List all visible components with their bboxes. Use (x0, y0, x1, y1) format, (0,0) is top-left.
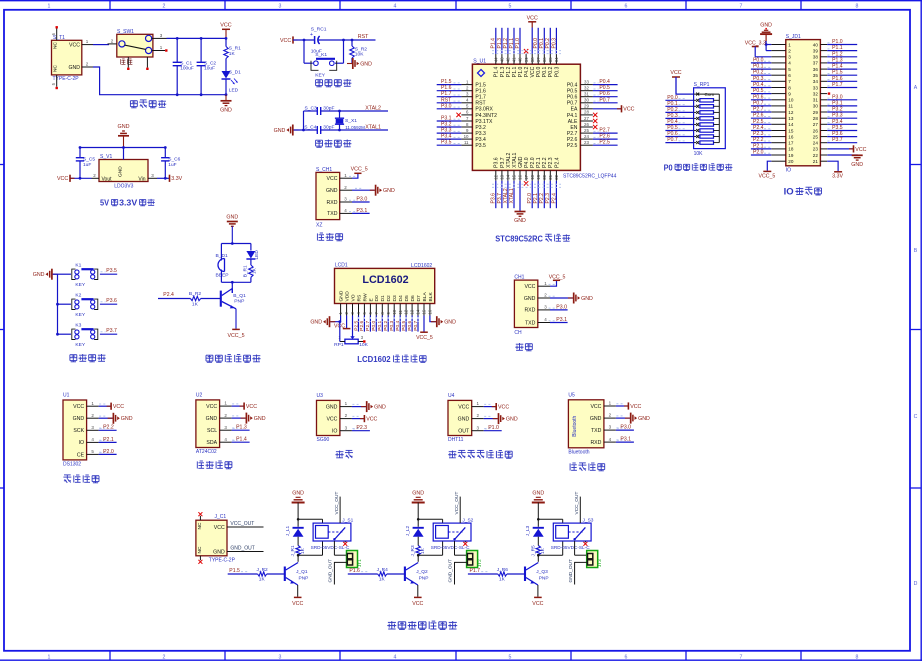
svg-text:40: 40 (518, 57, 523, 62)
svg-text:STC89C52RC_LQFP44: STC89C52RC_LQFP44 (563, 174, 617, 180)
svg-text:P4.3INT2: P4.3INT2 (475, 113, 497, 119)
svg-text:J_R1: J_R1 (290, 545, 296, 557)
svg-text:IO: IO (784, 187, 794, 197)
svg-text:VCC: VCC (630, 404, 641, 410)
svg-text:33: 33 (584, 79, 589, 84)
svg-text:VCC: VCC (280, 38, 291, 44)
svg-text:VCC: VCC (670, 70, 681, 76)
svg-text:K1: K1 (75, 263, 81, 269)
svg-text:P1.4: P1.4 (832, 64, 843, 70)
svg-text:Vout: Vout (102, 176, 113, 182)
svg-text:25: 25 (813, 134, 819, 139)
svg-text:JT2: JT2 (477, 559, 482, 567)
svg-text:S_D1: S_D1 (229, 70, 241, 76)
svg-text:GND: GND (33, 272, 45, 278)
svg-text:P3.0: P3.0 (356, 196, 367, 202)
svg-text:RS: RS (356, 294, 362, 302)
svg-text:P1.3: P1.3 (236, 425, 247, 431)
svg-text:10: 10 (464, 134, 469, 139)
svg-text:4: 4 (788, 61, 791, 66)
svg-text:39: 39 (813, 48, 819, 53)
svg-text:NC: NC (53, 42, 59, 49)
svg-text:10: 10 (392, 309, 397, 314)
svg-text:P3.0: P3.0 (832, 94, 843, 100)
svg-text:VCC_OUT: VCC_OUT (454, 492, 460, 515)
svg-text:37: 37 (813, 61, 819, 66)
svg-text:30: 30 (584, 98, 589, 103)
svg-text:D6: D6 (410, 295, 416, 302)
svg-text:2: 2 (163, 654, 166, 660)
svg-text:RXD: RXD (590, 440, 601, 446)
svg-text:P0.3: P0.3 (667, 113, 678, 119)
svg-text:KEY: KEY (75, 282, 86, 288)
svg-text:6: 6 (788, 73, 791, 78)
svg-text:S_RP1: S_RP1 (694, 82, 710, 88)
svg-text:P1.7: P1.7 (441, 91, 452, 97)
svg-text:P3.4: P3.4 (475, 137, 486, 143)
svg-text:LCD1602: LCD1602 (411, 263, 432, 269)
svg-text:1K: 1K (499, 577, 506, 583)
svg-text:VCC: VCC (366, 417, 377, 423)
svg-text:P1.1: P1.1 (832, 45, 843, 51)
svg-text:16: 16 (788, 134, 794, 139)
svg-text:P2.5: P2.5 (753, 119, 764, 125)
svg-text:GND: GND (326, 188, 338, 194)
svg-text:P1.7: P1.7 (475, 95, 486, 101)
svg-text:KEY: KEY (315, 73, 326, 79)
svg-text:P1.2: P1.2 (503, 38, 509, 49)
svg-text:U4: U4 (448, 393, 455, 399)
svg-text:J_Q3: J_Q3 (536, 569, 548, 575)
svg-text:P1.6: P1.6 (832, 76, 843, 82)
svg-text:VCC: VCC (113, 404, 124, 410)
svg-text:J_S3: J_S3 (583, 518, 594, 524)
svg-text:29: 29 (813, 110, 819, 115)
svg-text:P4.2: P4.2 (524, 67, 530, 78)
svg-text:S_U1: S_U1 (473, 59, 486, 65)
svg-text:13: 13 (500, 174, 505, 179)
svg-text:P2.3: P2.3 (753, 131, 764, 137)
svg-text:27: 27 (813, 122, 819, 127)
svg-text:12: 12 (494, 174, 499, 179)
svg-text:19: 19 (536, 174, 541, 179)
svg-text:GND: GND (339, 290, 345, 301)
svg-text:P0.7: P0.7 (753, 100, 764, 106)
svg-text:26: 26 (584, 122, 589, 127)
svg-text:P3.1: P3.1 (356, 208, 367, 214)
svg-text:SRD-05VDC-SL-C: SRD-05VDC-SL-C (431, 545, 470, 550)
svg-text:15: 15 (788, 128, 794, 133)
svg-text:29: 29 (584, 104, 589, 109)
svg-text:28: 28 (813, 116, 819, 121)
svg-text:J_Q2: J_Q2 (416, 569, 428, 575)
svg-text:P3.2: P3.2 (475, 125, 486, 131)
svg-text:4: 4 (394, 3, 397, 9)
svg-text:VCC_5: VCC_5 (759, 174, 776, 180)
svg-text:GND: GND (532, 491, 544, 497)
svg-text:P3.4: P3.4 (832, 119, 843, 125)
svg-text:A: A (914, 85, 918, 91)
svg-text:13: 13 (788, 116, 794, 121)
svg-text:P0.3: P0.3 (389, 320, 395, 330)
svg-text:P2.4: P2.4 (551, 193, 557, 204)
svg-text:AT24C02: AT24C02 (196, 449, 217, 455)
svg-text:VCC: VCC (527, 15, 538, 21)
svg-text:S_RC1: S_RC1 (311, 26, 327, 32)
svg-text:P0.0: P0.0 (753, 57, 764, 63)
svg-text:40: 40 (813, 42, 819, 47)
svg-text:32: 32 (584, 86, 589, 91)
svg-text:XTAL2: XTAL2 (506, 153, 512, 168)
svg-text:GND: GND (851, 162, 863, 168)
svg-text:3: 3 (279, 654, 282, 660)
svg-text:20: 20 (542, 174, 547, 179)
svg-text:31: 31 (584, 92, 589, 97)
svg-text:GND_OUT: GND_OUT (328, 559, 334, 583)
svg-text:34: 34 (554, 57, 559, 62)
svg-text:22: 22 (813, 153, 819, 158)
svg-text:P1.5: P1.5 (832, 70, 843, 76)
svg-text:GND: GND (374, 405, 386, 411)
svg-text:P3.1: P3.1 (620, 437, 631, 443)
svg-text:U1: U1 (63, 393, 70, 399)
svg-text:VCC: VCC (206, 404, 217, 410)
svg-text:GND: GND (760, 23, 772, 29)
svg-text:41: 41 (512, 57, 517, 62)
svg-text:26: 26 (813, 128, 819, 133)
svg-text:P2.4: P2.4 (753, 125, 764, 131)
svg-text:DS1302: DS1302 (63, 461, 81, 467)
svg-text:P0.2: P0.2 (545, 38, 551, 49)
svg-text:P2.2: P2.2 (753, 137, 764, 143)
svg-text:P2.1: P2.1 (103, 437, 114, 443)
svg-text:P2.7: P2.7 (365, 320, 371, 330)
svg-text:GND: GND (458, 417, 470, 423)
svg-text:P1.4: P1.4 (491, 38, 497, 49)
svg-text:S_C2: S_C2 (204, 60, 216, 66)
svg-text:30: 30 (813, 104, 819, 109)
svg-text:P2.5: P2.5 (599, 140, 610, 146)
svg-text:S_C4: S_C4 (304, 124, 317, 130)
svg-text:GND: GND (590, 416, 602, 422)
svg-text:D7: D7 (416, 295, 422, 302)
svg-text:P3.4: P3.4 (441, 134, 452, 140)
svg-text:VCC: VCC (590, 404, 601, 410)
svg-text:18: 18 (530, 174, 535, 179)
svg-text:P0.4: P0.4 (753, 82, 764, 88)
svg-text:VCC_5: VCC_5 (351, 167, 368, 173)
svg-text:100uF: 100uF (180, 66, 194, 72)
svg-text:18: 18 (788, 147, 794, 152)
svg-text:XTAL2: XTAL2 (365, 105, 381, 111)
svg-text:J_R5: J_R5 (530, 545, 536, 557)
svg-text:P1.2: P1.2 (506, 67, 512, 78)
svg-text:11: 11 (464, 140, 469, 145)
svg-text:S_C1: S_C1 (180, 60, 192, 66)
svg-text:1uF: 1uF (83, 162, 91, 168)
svg-text:VCC: VCC (458, 405, 469, 411)
svg-text:21: 21 (813, 159, 819, 164)
svg-text:P0.6: P0.6 (753, 94, 764, 100)
svg-text:13: 13 (410, 309, 415, 314)
svg-text:P1.5: P1.5 (475, 83, 486, 89)
svg-text:P0.6: P0.6 (667, 131, 678, 137)
svg-text:SDA: SDA (206, 440, 217, 446)
svg-text:P4.1: P4.1 (567, 113, 578, 119)
svg-text:SG90: SG90 (317, 437, 330, 443)
svg-text:GND: GND (121, 416, 133, 422)
svg-text:OUT: OUT (458, 429, 470, 435)
svg-text:P3.2: P3.2 (441, 122, 452, 128)
svg-text:XTAL1: XTAL1 (509, 188, 515, 203)
svg-text:P0.1: P0.1 (667, 101, 678, 107)
svg-text:1K: 1K (300, 547, 306, 554)
svg-text:10: 10 (788, 98, 794, 103)
svg-text:VCC_OUT: VCC_OUT (574, 492, 580, 515)
svg-text:VCC_OUT: VCC_OUT (230, 521, 254, 527)
svg-text:J_C1: J_C1 (215, 514, 227, 520)
svg-text:GND: GND (514, 218, 526, 224)
svg-text:B_R1: B_R1 (243, 265, 249, 277)
svg-text:5: 5 (509, 3, 512, 9)
svg-text:3.3V: 3.3V (171, 176, 182, 182)
svg-text:SRD-05VDC-SL-C: SRD-05VDC-SL-C (551, 545, 590, 550)
svg-text:VCC_5: VCC_5 (227, 333, 244, 339)
svg-text:PNP: PNP (539, 576, 549, 582)
svg-text:CH1: CH1 (514, 275, 524, 281)
svg-text:GND: GND (444, 320, 456, 326)
svg-text:J_Q1: J_Q1 (296, 569, 308, 575)
svg-text:D0: D0 (374, 295, 380, 302)
svg-text:35: 35 (813, 73, 819, 78)
svg-text:22: 22 (554, 174, 559, 179)
svg-text:1K: 1K (229, 51, 236, 57)
svg-text:10uF: 10uF (204, 66, 215, 72)
svg-text:VCC: VCC (532, 601, 543, 607)
svg-text:LED: LED (254, 250, 260, 260)
svg-text:B_R2: B_R2 (189, 291, 202, 297)
svg-text:BLK: BLK (428, 292, 434, 302)
svg-text:VCC_5: VCC_5 (549, 274, 566, 280)
svg-text:J_S1: J_S1 (342, 518, 353, 524)
svg-text:JT3: JT3 (597, 559, 602, 567)
svg-text:P0.3: P0.3 (554, 67, 560, 78)
svg-text:U5: U5 (568, 393, 575, 399)
svg-text:GND: GND (292, 491, 304, 497)
svg-text:VCC: VCC (326, 417, 337, 423)
svg-text:RXD: RXD (524, 308, 535, 314)
svg-text:S_R2: S_R2 (355, 46, 368, 52)
svg-text:B: B (914, 248, 918, 254)
svg-text:25: 25 (584, 128, 589, 133)
svg-text:VCC: VCC (623, 107, 634, 113)
svg-text:LCD1: LCD1 (335, 262, 348, 268)
svg-text:31: 31 (813, 98, 819, 103)
svg-text:P2.3: P2.3 (356, 425, 367, 431)
svg-text:XTAL1: XTAL1 (365, 124, 381, 130)
svg-text:P1.0: P1.0 (832, 39, 843, 45)
svg-text:P3.0: P3.0 (620, 425, 631, 431)
svg-text:J_R4: J_R4 (377, 567, 389, 573)
svg-text:1: 1 (48, 3, 51, 9)
svg-text:6: 6 (625, 654, 628, 660)
svg-text:7: 7 (740, 654, 743, 660)
svg-text:42: 42 (506, 57, 511, 62)
svg-text:2: 2 (788, 48, 791, 53)
svg-text:43: 43 (500, 57, 505, 62)
svg-text:GND: GND (118, 166, 124, 177)
svg-text:3: 3 (279, 3, 282, 9)
svg-text:VCC: VCC (246, 404, 257, 410)
svg-text:P3.6: P3.6 (491, 193, 497, 204)
svg-text:GND: GND (206, 416, 218, 422)
svg-text:P0.5: P0.5 (753, 88, 764, 94)
svg-text:TXD: TXD (591, 428, 602, 434)
svg-text:VCC_5: VCC_5 (416, 335, 433, 341)
svg-text:P3.5: P3.5 (475, 143, 486, 149)
svg-text:8: 8 (856, 3, 859, 9)
svg-text:PNP: PNP (299, 576, 309, 582)
svg-text:J_R2: J_R2 (257, 567, 269, 573)
svg-text:3: 3 (788, 55, 791, 60)
svg-text:GND: GND (581, 296, 593, 302)
svg-text:CH: CH (514, 330, 522, 336)
svg-text:14: 14 (506, 174, 511, 179)
svg-text:U3: U3 (317, 393, 324, 399)
svg-text:10K: 10K (355, 52, 364, 58)
svg-text:GND_OUT: GND_OUT (568, 559, 574, 583)
svg-text:P2.4: P2.4 (554, 157, 560, 168)
svg-text:P3.5: P3.5 (832, 125, 843, 131)
svg-text:VCC: VCC (524, 284, 535, 290)
svg-text:P2.1: P2.1 (536, 157, 542, 168)
svg-text:VCC: VCC (69, 42, 80, 48)
svg-text:9: 9 (788, 91, 791, 96)
svg-text:P0.7: P0.7 (599, 97, 610, 103)
svg-text:24: 24 (584, 134, 589, 139)
svg-text:P3.6: P3.6 (832, 131, 843, 137)
svg-text:S_SW1: S_SW1 (117, 29, 134, 35)
svg-text:37: 37 (536, 57, 541, 62)
svg-text:12: 12 (404, 309, 409, 314)
svg-text:P0.0: P0.0 (371, 320, 377, 330)
svg-text:15: 15 (512, 174, 517, 179)
svg-text:P3.0RX: P3.0RX (475, 107, 493, 113)
svg-text:J_L2: J_L2 (405, 525, 411, 536)
svg-text:P3.7: P3.7 (832, 137, 843, 143)
svg-text:28: 28 (584, 110, 589, 115)
svg-text:P0.4: P0.4 (395, 320, 401, 330)
svg-text:P1.0: P1.0 (488, 425, 499, 431)
svg-text:P0.6: P0.6 (567, 95, 578, 101)
svg-text:C: C (914, 414, 918, 420)
svg-text:D4: D4 (398, 295, 404, 302)
svg-text:GND: GND (506, 417, 518, 423)
svg-text:39: 39 (524, 57, 529, 62)
svg-text:D1: D1 (380, 295, 386, 302)
svg-text:NC: NC (53, 65, 59, 72)
svg-text:J_L3: J_L3 (525, 525, 531, 536)
svg-text:P2.5: P2.5 (567, 143, 578, 149)
svg-text:27: 27 (584, 116, 589, 121)
svg-text:19: 19 (788, 153, 794, 158)
svg-text:P1.4: P1.4 (236, 437, 247, 443)
svg-text:P1.0: P1.0 (515, 38, 521, 49)
svg-text:36: 36 (813, 67, 819, 72)
svg-text:11: 11 (788, 104, 793, 109)
svg-text:LED: LED (229, 88, 239, 94)
svg-text:P3.1: P3.1 (832, 100, 843, 106)
svg-text:4: 4 (394, 654, 397, 660)
svg-text:17: 17 (524, 174, 529, 179)
svg-text:P2.7: P2.7 (753, 107, 764, 113)
svg-text:NC: NC (197, 546, 203, 553)
svg-text:12: 12 (788, 110, 794, 115)
svg-text:S_R1: S_R1 (229, 46, 241, 52)
svg-text:D2: D2 (386, 295, 392, 302)
svg-text:NC: NC (197, 522, 203, 529)
svg-text:STC89C52RC: STC89C52RC (495, 233, 543, 243)
svg-text:P2.3: P2.3 (545, 193, 551, 204)
svg-text:P1.5: P1.5 (229, 568, 240, 574)
svg-text:VCC: VCC (292, 601, 303, 607)
svg-text:VCC: VCC (57, 176, 68, 182)
svg-text:GND: GND (383, 188, 395, 194)
svg-text:14: 14 (416, 309, 421, 314)
svg-text:P2.2: P2.2 (103, 425, 114, 431)
svg-text:1K: 1K (379, 577, 386, 583)
svg-text:EN: EN (570, 125, 577, 131)
svg-text:1K: 1K (420, 547, 426, 554)
svg-text:Bluetooth: Bluetooth (568, 449, 589, 455)
svg-text:TYPE-C-2P: TYPE-C-2P (209, 557, 236, 563)
svg-text:GND: GND (518, 156, 524, 168)
svg-text:P3.5: P3.5 (106, 268, 117, 274)
svg-text:VCC: VCC (855, 147, 866, 153)
svg-text:38: 38 (530, 57, 535, 62)
svg-text:P2.3: P2.3 (548, 157, 554, 168)
svg-text:P1.4: P1.4 (494, 67, 500, 78)
svg-text:GND: GND (254, 416, 266, 422)
svg-text:S_C6: S_C6 (168, 157, 180, 163)
svg-text:P0.5: P0.5 (401, 320, 407, 330)
svg-text:J_R3: J_R3 (410, 545, 416, 557)
svg-text:1K: 1K (540, 547, 546, 554)
svg-text:1: 1 (788, 42, 791, 47)
svg-text:S_K1: S_K1 (315, 52, 327, 58)
svg-text:16: 16 (428, 309, 433, 314)
svg-text:D5: D5 (404, 295, 410, 302)
svg-text:33: 33 (813, 85, 819, 90)
svg-text:3.3V: 3.3V (119, 199, 138, 208)
svg-text:P0.2: P0.2 (753, 70, 764, 76)
svg-text:P0.2: P0.2 (548, 67, 554, 78)
svg-text:5: 5 (788, 67, 791, 72)
svg-text:P0.6: P0.6 (599, 91, 610, 97)
svg-text:S_C5: S_C5 (83, 157, 95, 163)
svg-text:Bluetooth: Bluetooth (572, 415, 578, 436)
svg-text:P0.2: P0.2 (383, 320, 389, 330)
svg-text:5V: 5V (100, 199, 109, 208)
svg-text:P3.2: P3.2 (832, 107, 843, 113)
svg-text:+: + (310, 32, 313, 38)
svg-text:P2.5: P2.5 (353, 320, 359, 330)
svg-text:LCD1602: LCD1602 (362, 274, 408, 286)
svg-text:P3.6: P3.6 (106, 298, 117, 304)
svg-text:16: 16 (518, 174, 523, 179)
svg-text:CE: CE (77, 452, 85, 458)
svg-text:JT1: JT1 (357, 559, 362, 567)
